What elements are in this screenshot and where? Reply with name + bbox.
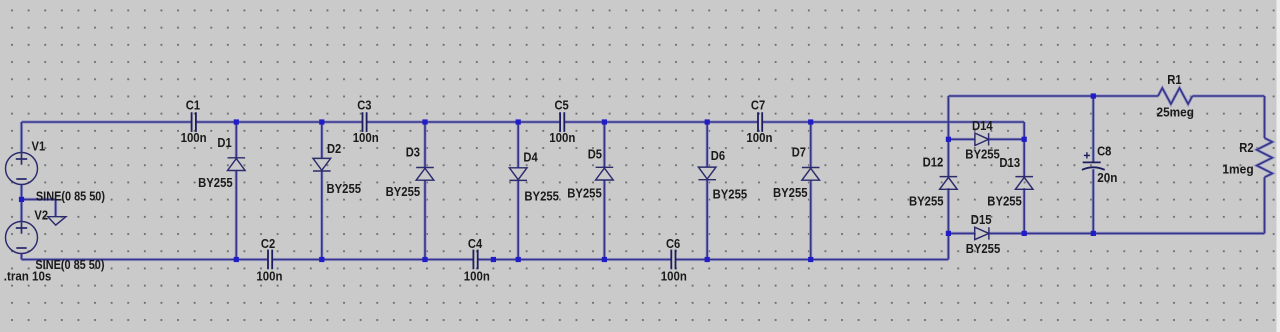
svg-text:100n: 100n <box>661 269 687 284</box>
svg-text:V2: V2 <box>34 207 48 222</box>
svg-text:C2: C2 <box>261 236 275 251</box>
svg-text:BY255: BY255 <box>386 184 421 199</box>
svg-text:C1: C1 <box>186 97 200 112</box>
svg-text:BY255: BY255 <box>965 147 1000 162</box>
svg-text:D4: D4 <box>523 149 537 164</box>
svg-text:D7: D7 <box>792 144 806 159</box>
svg-text:D5: D5 <box>588 146 602 161</box>
svg-text:100n: 100n <box>181 130 207 145</box>
svg-text:BY255: BY255 <box>567 186 602 201</box>
svg-text:BY255: BY255 <box>524 188 559 203</box>
svg-text:C3: C3 <box>357 97 371 112</box>
svg-text:C7: C7 <box>751 97 765 112</box>
svg-text:D15: D15 <box>971 212 992 227</box>
svg-text:20n: 20n <box>1097 170 1117 185</box>
svg-text:25meg: 25meg <box>1157 105 1194 120</box>
svg-text:C5: C5 <box>555 97 569 112</box>
svg-text:.tran 10s: .tran 10s <box>4 269 52 284</box>
svg-text:D2: D2 <box>327 141 341 156</box>
svg-text:BY255: BY255 <box>966 241 1001 256</box>
svg-text:100n: 100n <box>256 269 282 284</box>
svg-text:100n: 100n <box>464 269 490 284</box>
svg-text:D1: D1 <box>217 135 231 150</box>
svg-text:SINE(0 85 50): SINE(0 85 50) <box>36 188 105 203</box>
svg-text:BY255: BY255 <box>987 194 1022 209</box>
svg-text:D14: D14 <box>972 118 993 133</box>
svg-text:D13: D13 <box>999 155 1020 170</box>
svg-text:1meg: 1meg <box>1222 162 1253 177</box>
svg-text:BY255: BY255 <box>327 181 362 196</box>
svg-text:100n: 100n <box>353 130 379 145</box>
svg-text:100n: 100n <box>549 130 575 145</box>
svg-text:C4: C4 <box>468 236 482 251</box>
svg-text:100n: 100n <box>746 130 772 145</box>
svg-text:R2: R2 <box>1239 140 1253 155</box>
svg-text:D12: D12 <box>923 155 944 170</box>
svg-text:BY255: BY255 <box>773 185 808 200</box>
svg-text:C6: C6 <box>666 236 680 251</box>
svg-text:V1: V1 <box>32 139 46 154</box>
svg-text:D6: D6 <box>711 148 725 163</box>
svg-text:BY255: BY255 <box>713 187 748 202</box>
svg-text:BY255: BY255 <box>198 175 233 190</box>
svg-text:R1: R1 <box>1167 72 1181 87</box>
svg-text:C8: C8 <box>1097 144 1111 159</box>
svg-text:D3: D3 <box>406 144 420 159</box>
svg-text:BY255: BY255 <box>909 194 944 209</box>
